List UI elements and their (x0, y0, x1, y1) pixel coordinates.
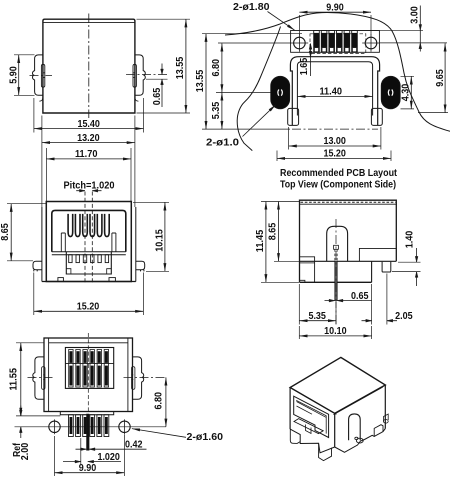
dimension 1.65 line (310, 44, 312, 77)
pcb slot right (381, 76, 400, 109)
dimension 13.55 extension lines (137, 19, 191, 113)
front view latch teeth row (69, 255, 72, 263)
dimension 5.35 pcb line (221, 92, 223, 129)
side view bottom right notch (359, 248, 396, 261)
top view left tab bracket (41, 64, 44, 87)
dimension 13.55 line (185, 19, 187, 113)
dimension 11.45 extension lines (261, 202, 299, 283)
svg-text:Pitch=1.020: Pitch=1.020 (64, 180, 115, 191)
front view left mounting wing (33, 261, 42, 271)
svg-text:9.90: 9.90 (326, 2, 344, 13)
side view body bottom line (300, 260, 397, 262)
front view right side wall (135, 207, 137, 282)
dimension 15.40 extension lines (34, 98, 144, 133)
dimension 13.55 pcb line (205, 34, 207, 129)
bottom view center solder pin (87, 414, 90, 450)
dimension 15.20 front extension lines (34, 273, 144, 316)
dimension 2.05 line with outside arrows (362, 320, 398, 322)
front view bottom small left notch (58, 278, 64, 282)
bottom view hole right vertical crosshair (124, 419, 126, 434)
bottom view right wing bracket (132, 367, 135, 390)
isometric opening shelf (294, 419, 323, 434)
isometric right face right edge (384, 385, 386, 429)
side view pin dashed inside peg (335, 249, 337, 261)
svg-text:Top View (Component Side): Top View (Component Side) (280, 179, 396, 190)
svg-text:10.15: 10.15 (155, 229, 166, 252)
top view body outline (43, 19, 135, 113)
side view base bottom (300, 281, 372, 283)
front view right mounting wing (136, 261, 145, 271)
dimension 6.80 bottom line (165, 377, 167, 426)
bottom view hole centerline horizontal (15, 426, 167, 428)
dimension 9.90 pcb extension lines (299, 15, 371, 35)
bottom view vertical centerline (87, 333, 89, 412)
dimension 15.20 pcb line (277, 157, 391, 159)
side view peg inner pin box (334, 245, 339, 249)
front view latch center block (66, 252, 111, 274)
side view body outline (300, 200, 397, 282)
dimension 1.40 extension lines (392, 262, 421, 271)
dimension 2.05 extension lines (372, 274, 387, 325)
isometric rear small pin (383, 420, 388, 424)
dimension 8.65 front extension lines (7, 204, 46, 261)
front view left inner ledge (61, 233, 65, 252)
dimension 11.70 extension lines (46, 148, 131, 201)
svg-text:5.90: 5.90 (8, 66, 19, 84)
dimension 13.55 pcb extension lines (202, 34, 302, 129)
front view contact 5 (97, 214, 102, 237)
pcb mounting hole right (365, 37, 377, 49)
bottom view inner left wall (48, 338, 50, 412)
side view right foot (382, 262, 391, 272)
dimension 5.90 extension lines (14, 55, 35, 96)
top view right latch tab (135, 55, 145, 95)
top view left tab centerline (30, 74, 53, 76)
leader line for 2-dia1.80 (268, 12, 295, 31)
front view bottom edge (42, 281, 136, 283)
dimension 5.90 line (18, 55, 20, 96)
svg-text:Ref: Ref (12, 442, 23, 457)
svg-text:13.00: 13.00 (323, 136, 346, 147)
isometric top face (290, 357, 385, 413)
svg-text:3.00: 3.00 (409, 6, 420, 24)
front view contact 3 (83, 214, 88, 237)
leader line for 2-dia1.0 (243, 105, 276, 137)
svg-text:2.05: 2.05 (395, 311, 413, 322)
top view left latch tab (33, 55, 43, 95)
svg-text:0.65: 0.65 (152, 87, 163, 105)
svg-text:1.65: 1.65 (299, 57, 310, 75)
dimension 13.20 extension lines (42, 116, 135, 208)
front view contact 2 (75, 214, 80, 237)
svg-text:13.55: 13.55 (195, 69, 206, 92)
svg-text:9.90: 9.90 (79, 463, 97, 474)
side view inner step second line (300, 262, 315, 264)
svg-text:8.65: 8.65 (268, 222, 279, 240)
front view jack opening (52, 210, 126, 251)
svg-text:10.10: 10.10 (324, 326, 347, 337)
bottom view body outline (44, 338, 133, 412)
pcb slot right center mark (388, 90, 393, 96)
dimension 10.10 line (299, 335, 371, 337)
side view top serration dashed line (301, 201, 396, 203)
dimension 8.65 front line (10, 204, 12, 261)
svg-text:8.65: 8.65 (0, 223, 11, 241)
dimension 0.65 side arrows (325, 300, 372, 302)
pcb bottom centerline (292, 128, 378, 130)
dimension 9.90 bottom line (55, 472, 125, 474)
pcb mounting hole left crosshair (291, 34, 309, 52)
pcb slot left (271, 76, 290, 109)
side view center peg (327, 226, 348, 261)
front view latch block corner steps (66, 269, 111, 274)
front view contact 1 (68, 214, 73, 237)
svg-text:Recommended PCB Layout: Recommended PCB Layout (280, 168, 398, 179)
pcb mounting hole left (294, 37, 306, 49)
dimension 8.65 side line (278, 202, 280, 262)
dimension 8.65 side extension line (274, 260, 299, 262)
dimension 9.65 bottom extension (418, 112, 448, 114)
bottom view left wing (33, 357, 44, 399)
dimension 0.42 leader (96, 448, 147, 450)
dimension 1.40 line with outside arrows (416, 248, 418, 286)
bottom view right wing (133, 357, 144, 399)
isometric right rear foot (374, 425, 383, 437)
leader line for 2-dia1.60 (132, 429, 186, 438)
dimension 13.00 extension lines (289, 127, 381, 150)
pcb slot centerline extension (216, 91, 271, 93)
bottom view mounting hole left (49, 421, 60, 432)
svg-text:13.20: 13.20 (77, 133, 100, 144)
side view top serration line (300, 203, 397, 205)
pcb channel outer outline (290, 57, 379, 126)
dimension 0.65 line with arrows (161, 64, 163, 108)
dimension 15.40 line (34, 128, 144, 130)
svg-text:11.40: 11.40 (319, 87, 342, 98)
pcb outline freeform left curve (237, 27, 280, 151)
dimension 1.020 line (63, 461, 121, 463)
top view inner top edge line (43, 22, 135, 24)
dimension 9.65 line (444, 43, 446, 112)
pcb hole centerline extension right (380, 42, 447, 44)
side view base left notch (300, 280, 305, 283)
dimension 1.020 extension line (80, 438, 82, 464)
dimension 11.70 line (46, 158, 131, 160)
top view left step mark below tab (39, 97, 43, 101)
dimension 2.00 Ref line with outside arrows (20, 406, 22, 439)
svg-text:11.70: 11.70 (75, 149, 98, 160)
front view contact 6 (105, 214, 110, 237)
pcb outline freeform right curve (225, 13, 450, 132)
svg-text:15.20: 15.20 (323, 149, 346, 160)
pcb solder pads dashed box (310, 34, 366, 54)
pitch dimension arrows (76, 190, 101, 192)
dimension 11.55 line (20, 343, 22, 416)
dimension 5.35 side line (299, 320, 336, 322)
dimension 4.30 line (410, 76, 412, 109)
pcb channel right foot (371, 108, 382, 125)
svg-text:6.80: 6.80 (153, 392, 164, 410)
svg-text:2-ø1.0: 2-ø1.0 (206, 138, 239, 149)
svg-text:6.80: 6.80 (211, 59, 222, 77)
isometric front face outline (290, 388, 335, 448)
front view right inner ledge (112, 233, 116, 252)
dimension 10.10 extension continuation (299, 326, 371, 339)
isometric front center foot (319, 443, 332, 460)
isometric top face chamfer lines (293, 387, 383, 415)
dimension 0.65 tab offset upper line (126, 74, 168, 76)
isometric jack opening inner border (296, 400, 326, 433)
bottom view contact rails (69, 350, 73, 388)
dimension 3.00 extension line upper (357, 29, 423, 31)
svg-text:4.30: 4.30 (400, 83, 411, 101)
dimension 3.00 line (419, 6, 421, 52)
bottom view mounting hole right (119, 421, 130, 432)
svg-text:13.55: 13.55 (175, 56, 186, 79)
bottom view terminal teeth (69, 415, 74, 437)
isometric front left foot (290, 429, 300, 443)
dimension 0.65 tab offset lower line (146, 78, 168, 80)
side view vertical centerline (335, 219, 337, 326)
pcb channel left foot (288, 108, 299, 125)
bottom view inner top line (49, 342, 128, 344)
bottom view inner right wall (127, 338, 129, 412)
front view pitch centerline right (91, 192, 93, 285)
svg-text:11.55: 11.55 (9, 368, 20, 391)
dimension 10.15 line (164, 202, 166, 271)
isometric right face bottom edge (335, 429, 386, 453)
bottom view left wing centerline (28, 376, 54, 378)
isometric solder pin tip (356, 438, 363, 443)
svg-text:5.35: 5.35 (211, 101, 222, 119)
dimension 5.35 side extension lines (299, 284, 336, 325)
dimension 4.30 extension lines (401, 76, 415, 109)
front view contact 4 (90, 214, 95, 237)
dimension 15.20 front line (34, 310, 144, 312)
pcb hole centerline extension left (218, 42, 291, 44)
isometric opening ledge lines (297, 402, 327, 418)
front view pitch centerline left (84, 192, 86, 285)
top view right step mark below tab (135, 97, 139, 101)
dimension 13.20 line (42, 142, 135, 144)
dimension 6.80 pcb line (221, 43, 223, 92)
bottom view hole left vertical crosshair (54, 419, 56, 434)
dimension 11.55 extension lines (16, 343, 60, 416)
isometric side peg (349, 414, 361, 440)
bottom view left wing bracket (42, 367, 45, 390)
svg-text:9.65: 9.65 (435, 69, 446, 87)
isometric front face bottom edge (290, 429, 335, 453)
svg-text:11.45: 11.45 (255, 229, 266, 252)
svg-text:2-ø1.60: 2-ø1.60 (187, 432, 224, 443)
bottom view right wing centerline (124, 376, 166, 378)
svg-text:15.40: 15.40 (77, 119, 100, 130)
svg-text:1.40: 1.40 (405, 230, 416, 248)
dimension 11.40 line (297, 95, 372, 97)
top view vertical centerline (88, 14, 90, 119)
isometric jack opening (294, 396, 329, 437)
front view bottom small right notch (109, 278, 115, 282)
dimension 10.15 extension lines (133, 202, 169, 271)
svg-text:1.020: 1.020 (97, 452, 120, 463)
side view base right edge (371, 261, 373, 282)
svg-text:0.65: 0.65 (351, 291, 369, 302)
bottom view terminal block (60, 412, 113, 415)
svg-text:0.42: 0.42 (125, 439, 143, 450)
dimension 15.20 pcb extension lines (277, 151, 391, 162)
isometric opening latch notch (306, 425, 312, 434)
front view left side wall (41, 207, 43, 282)
bottom view contact window (65, 348, 113, 389)
svg-text:2-ø1.80: 2-ø1.80 (233, 2, 270, 13)
front view face outline (46, 202, 131, 282)
pcb channel inner outline (297, 62, 372, 116)
pcb solder strip outline (291, 31, 380, 53)
pcb solder pads (314, 31, 320, 53)
dimension 13.00 line (289, 145, 381, 147)
dimension 9.90 bottom extension lines (55, 435, 125, 477)
dimension 11.45 line (265, 202, 267, 283)
bottom view contact window mid line (65, 362, 113, 364)
front view opening bottom lines (52, 252, 126, 255)
top view right tab bracket (133, 64, 136, 87)
side view solder pin (335, 261, 337, 300)
side view inner step (300, 257, 315, 283)
dimension 9.90 pcb line (299, 11, 371, 13)
svg-text:5.35: 5.35 (308, 311, 326, 322)
pcb mounting hole right crosshair (362, 34, 380, 52)
pcb slot left center mark (278, 90, 283, 96)
svg-text:15.20: 15.20 (77, 302, 100, 313)
